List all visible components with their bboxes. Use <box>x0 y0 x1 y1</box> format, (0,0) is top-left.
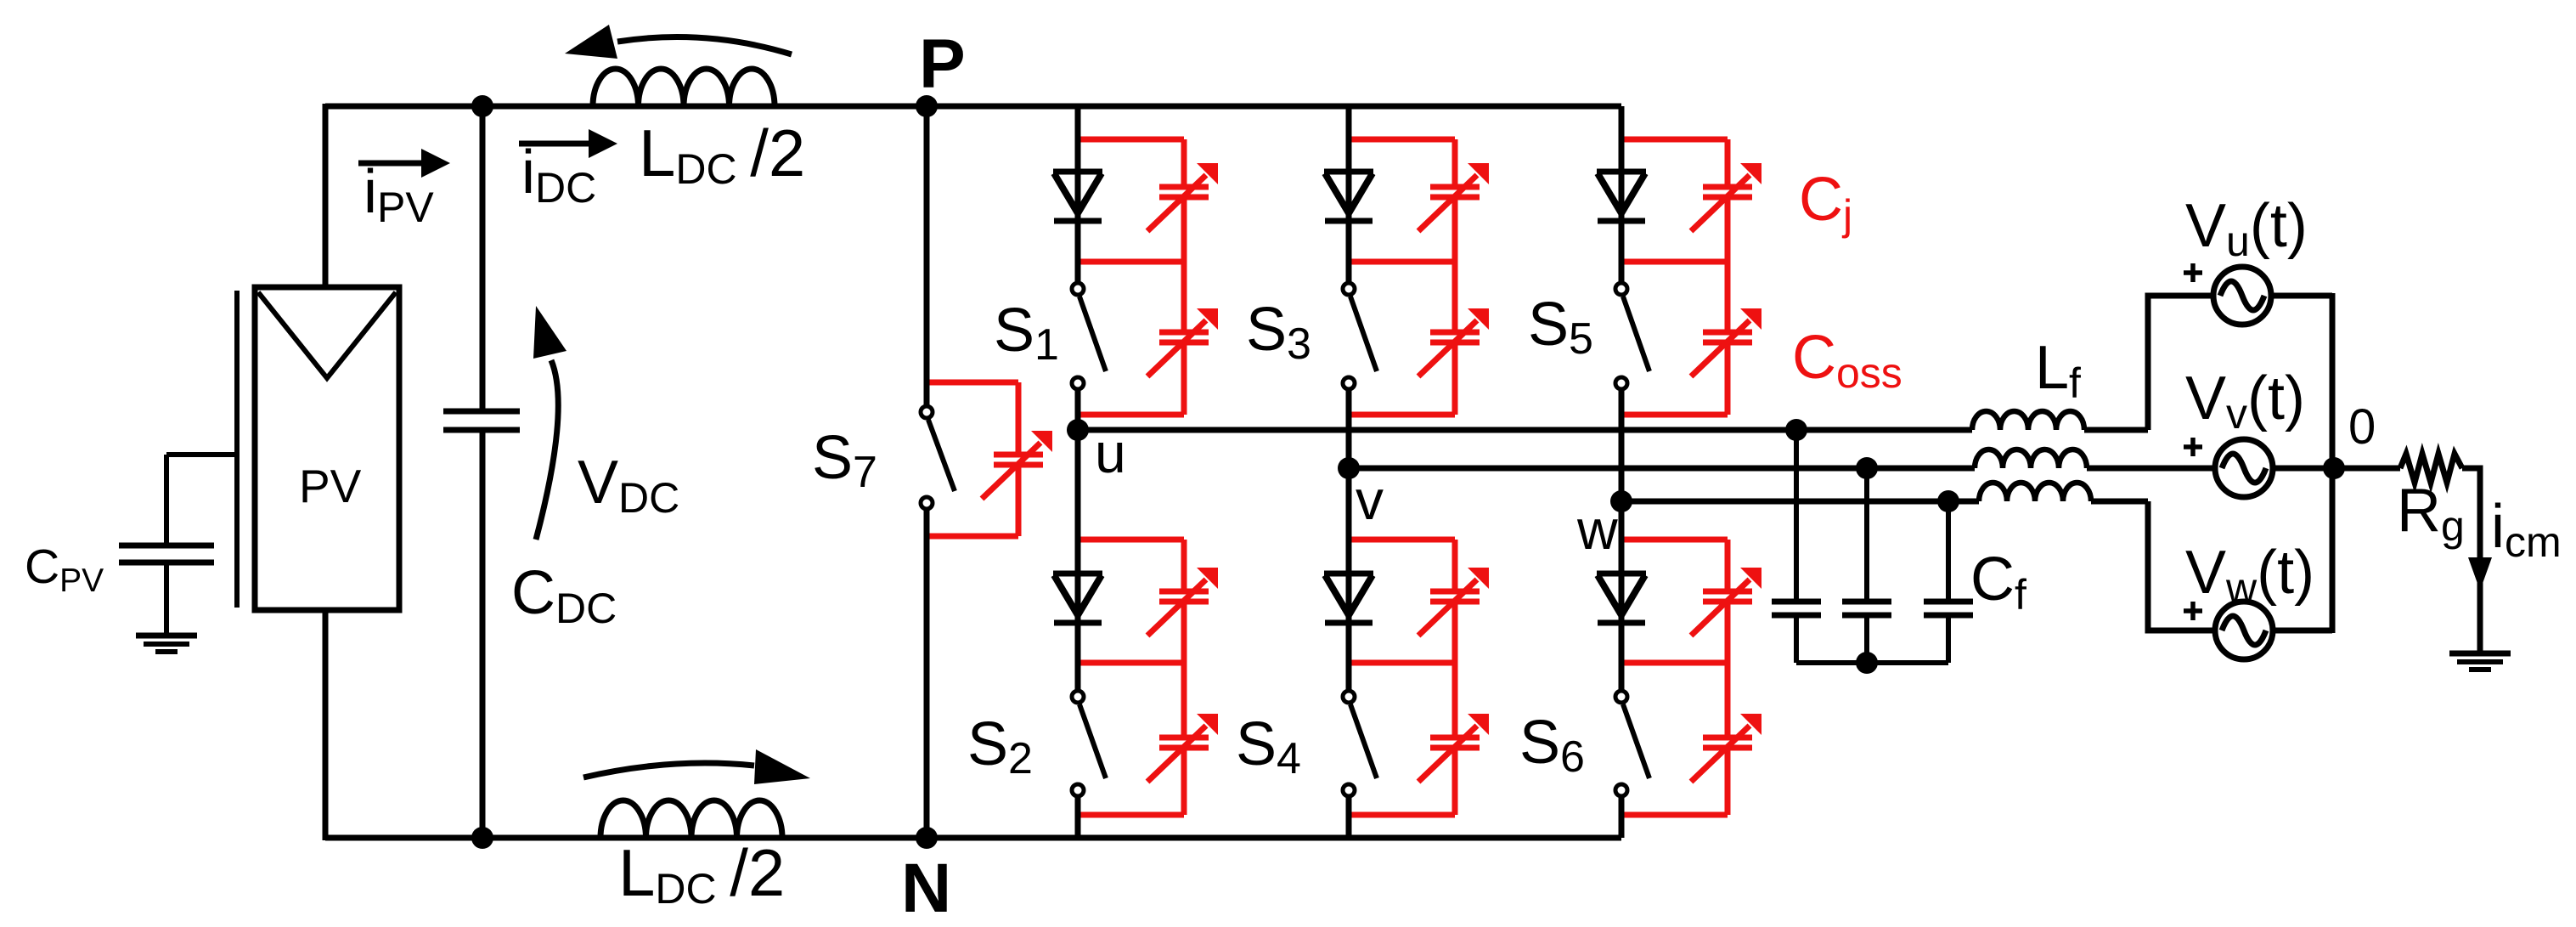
svg-text:0: 0 <box>2348 399 2376 455</box>
svg-text:N: N <box>901 850 951 927</box>
svg-text:P: P <box>919 25 966 103</box>
svg-text:v: v <box>1356 468 1384 531</box>
svg-text:PV: PV <box>299 460 362 512</box>
svg-text:w: w <box>1576 498 1618 561</box>
svg-text:u: u <box>1095 421 1126 484</box>
